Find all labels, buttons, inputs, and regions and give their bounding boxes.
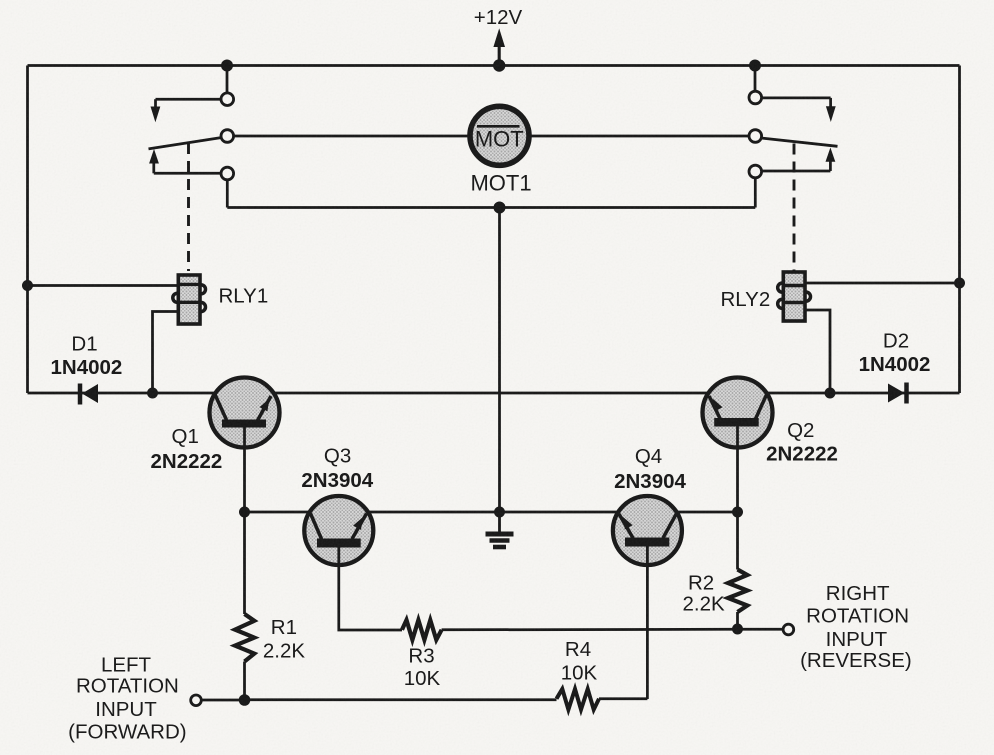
- relay contacts right (RLY2 switch): [529, 66, 837, 208]
- transistor Q3 2N3904: [301, 445, 402, 630]
- wire NO down: [754, 178, 757, 208]
- motor MOT1: [470, 106, 532, 195]
- node ground junction: [494, 507, 505, 518]
- wire left input: [201, 699, 245, 702]
- resistor R3 10K: [402, 620, 738, 690]
- wire NO down: [226, 180, 229, 208]
- ground: [486, 512, 514, 547]
- resistor R1 2.2K: [235, 512, 305, 700]
- transistor Q4 2N3904: [613, 445, 687, 699]
- wire lever: [149, 138, 222, 149]
- wire NC to arrow: [762, 97, 831, 100]
- wire RLY1 to D1 junction: [153, 312, 179, 394]
- wire pole to motor: [529, 135, 749, 138]
- wire lever: [761, 138, 838, 146]
- diode D2 1N4002: [859, 330, 931, 404]
- wire NC drop: [754, 66, 757, 92]
- wire left rail to RLY1: [28, 284, 179, 287]
- node D1 junction: [147, 388, 158, 399]
- +12V supply arrow: [474, 6, 523, 66]
- diode D1 1N4002: [50, 332, 122, 404]
- wire NC drop: [226, 66, 229, 94]
- relay RLY2 coil: [721, 272, 811, 321]
- relay RLY1 coil: [173, 275, 268, 324]
- wire RLY2 to right rail: [805, 282, 960, 285]
- node D2 junction: [825, 388, 836, 399]
- node Q1 base junction: [239, 507, 250, 518]
- node left rail junction: [22, 280, 33, 291]
- terminal NC right: [749, 91, 762, 104]
- up arrowhead right: [826, 148, 836, 162]
- right input label: [800, 582, 912, 672]
- terminal NO right: [749, 165, 762, 178]
- down arrowhead left: [151, 107, 161, 123]
- node top rail right junction: [749, 60, 761, 72]
- wire left rail: [26, 66, 29, 394]
- terminal right input: [783, 624, 794, 635]
- transistor Q1 2N2222: [150, 378, 279, 513]
- wire right rail: [958, 66, 961, 394]
- wire NO to arrow: [154, 172, 221, 175]
- wire RLY1 actuator dashed: [187, 143, 190, 271]
- terminal pole right: [749, 130, 762, 143]
- wire pole to motor: [234, 135, 470, 138]
- wire NO to arrow: [762, 170, 831, 173]
- wire main horizontal line D1-Q1-Q2-D2: [28, 392, 960, 395]
- terminal left input: [191, 695, 202, 706]
- terminal NC left: [221, 93, 234, 106]
- node R1 bottom junction: [239, 694, 251, 706]
- node right rail junction: [954, 278, 965, 289]
- node Q2 base junction: [732, 507, 743, 518]
- relay contacts left (RLY1 switch): [149, 66, 471, 208]
- wire NC to arrow: [156, 98, 222, 101]
- transistor Q2 2N2222: [703, 378, 838, 513]
- wire center vertical to ground: [498, 208, 501, 513]
- wire top rail: [28, 64, 960, 67]
- node top rail left junction: [221, 60, 233, 72]
- terminal pole left: [221, 130, 234, 143]
- down arrowhead right: [826, 106, 836, 122]
- node +12V junction: [493, 59, 505, 71]
- left input label: [68, 654, 186, 744]
- wire RLY2 actuator dashed: [793, 144, 796, 272]
- resistor R2 2.2K: [683, 512, 748, 629]
- wire RLY2 to D2 junction: [805, 310, 830, 393]
- wire right input: [738, 628, 784, 631]
- up arrowhead left: [149, 149, 159, 164]
- node R2 bottom junction: [732, 624, 743, 635]
- node switch-bottom center junction: [494, 202, 506, 214]
- wire base line Q1-ground-Q2: [245, 511, 738, 514]
- wire switch bottom horizontal: [227, 206, 755, 209]
- terminal NO left: [221, 167, 234, 180]
- resistor R4 10K: [245, 638, 648, 710]
